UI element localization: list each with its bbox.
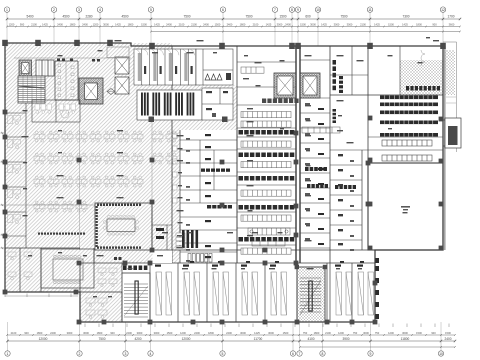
right strip shelf bar [333, 60, 337, 90]
right strip shelf bar 2 [333, 109, 337, 123]
svg-text:1425: 1425 [266, 23, 272, 27]
right wall gray band [443, 46, 445, 250]
svg-text:7: 7 [299, 352, 301, 356]
top dimension line 2 labels [9, 23, 455, 27]
svg-text:2100: 2100 [360, 23, 366, 27]
conference room acoustic dash left [96, 206, 98, 247]
urinal zigzags [205, 74, 222, 80]
interior wall: left block right edge [171, 46, 173, 263]
svg-text:10: 10 [316, 8, 320, 12]
shower stalls row [134, 49, 204, 85]
svg-text:3000: 3000 [268, 331, 274, 335]
svg-text:11700: 11700 [254, 337, 263, 341]
svg-text:1500: 1500 [167, 331, 173, 335]
svg-text:1800: 1800 [128, 23, 134, 27]
locker room [137, 90, 202, 120]
dark dotted seat band [38, 233, 85, 235]
locker shelving stacks [141, 93, 194, 116]
stairwell corner columns [295, 265, 328, 269]
left stair center rail [135, 281, 138, 314]
svg-text:1800: 1800 [240, 23, 246, 27]
strip A bottom shelves [188, 254, 212, 263]
svg-text:4500: 4500 [121, 15, 128, 19]
interior wall: right block y=95 [330, 94, 443, 96]
open office desk field [34, 131, 143, 212]
svg-text:5400: 5400 [26, 15, 33, 19]
conference room walls [95, 203, 152, 250]
svg-text:1500: 1500 [215, 23, 221, 27]
rooms column west fixtures [338, 154, 354, 251]
lower-left meeting table [53, 255, 83, 284]
svg-text:12000: 12000 [39, 337, 48, 341]
svg-text:7500: 7500 [245, 15, 252, 19]
rooms right of locker room [202, 88, 233, 120]
hatch region: lower-left protruding room [80, 292, 122, 322]
main stair S2 [18, 76, 45, 103]
svg-text:3000: 3000 [137, 331, 143, 335]
svg-text:5: 5 [222, 352, 224, 356]
svg-text:1800: 1800 [416, 23, 422, 27]
interior wall: right block y=163 [368, 162, 443, 164]
hatch region: left office block [5, 43, 172, 263]
svg-text:1200: 1200 [338, 331, 344, 335]
svg-text:1200: 1200 [93, 23, 99, 27]
lower-left rooms walls [5, 248, 94, 292]
svg-text:2400: 2400 [166, 23, 172, 27]
strip A dark band 2 [207, 205, 232, 209]
hatch region: lower-left offices [5, 263, 122, 292]
conference room acoustic dash bottom [97, 246, 141, 248]
svg-text:1425: 1425 [374, 23, 380, 27]
svg-text:2400: 2400 [226, 331, 232, 335]
interior wall: strip A mid x=214 [213, 150, 215, 190]
left offices column dividers [5, 100, 26, 248]
svg-text:1: 1 [6, 8, 8, 12]
right block terrace shelf row [406, 86, 440, 91]
svg-text:4200: 4200 [134, 337, 141, 341]
svg-text:2400: 2400 [285, 23, 291, 27]
strip A room dividers [180, 130, 237, 263]
svg-text:600: 600 [305, 15, 311, 19]
svg-text:900: 900 [24, 331, 29, 335]
washroom dark fixture [226, 73, 231, 80]
hatch region: upper toilets area [172, 85, 237, 130]
mid-south bench [248, 228, 290, 246]
washroom right of stalls [196, 49, 233, 85]
top grid line stems [7, 13, 443, 47]
interior wall: right block divider x=368 [367, 46, 369, 250]
svg-text:750: 750 [353, 331, 358, 335]
mid-south fixtures [156, 228, 164, 239]
svg-text:9: 9 [370, 352, 372, 356]
svg-text:5: 5 [150, 8, 152, 12]
left offices desks [8, 116, 21, 224]
svg-text:1200: 1200 [180, 331, 186, 335]
svg-text:3000: 3000 [103, 23, 109, 27]
svg-text:1700: 1700 [447, 15, 454, 19]
interior wall: strip A mid x=200 [199, 140, 201, 203]
terrace scallop arcs [421, 50, 425, 66]
svg-text:1200: 1200 [388, 331, 394, 335]
entrance lobby door arcs [134, 49, 194, 55]
warehouse segmented outline rows [382, 140, 432, 161]
svg-text:1800: 1800 [208, 331, 214, 335]
interior wall: central corridor east [299, 46, 301, 263]
right block top rooms walls [330, 46, 400, 95]
hatch region: mid corridor [172, 130, 180, 263]
svg-text:1500: 1500 [388, 23, 394, 27]
locker boxes stack [176, 233, 185, 250]
svg-text:2100: 2100 [31, 23, 37, 27]
svg-text:2400: 2400 [194, 331, 200, 335]
svg-text:2100: 2100 [191, 23, 197, 27]
lower-left desks [8, 252, 32, 280]
svg-text:7500: 7500 [183, 15, 190, 19]
svg-text:1425: 1425 [115, 23, 121, 27]
svg-text:2400: 2400 [82, 23, 88, 27]
right strip dividers [300, 60, 330, 248]
svg-text:1200: 1200 [9, 23, 15, 27]
svg-text:1500: 1500 [416, 331, 422, 335]
top dimension line 1 [6, 18, 461, 20]
svg-text:900: 900 [20, 23, 25, 27]
svg-text:900: 900 [110, 331, 115, 335]
north arrow diamond [107, 89, 115, 95]
top grid bubbles [4, 7, 445, 12]
interior wall: right strip east x=330 [329, 46, 331, 263]
svg-text:7500: 7500 [98, 337, 105, 341]
svg-text:7300: 7300 [402, 15, 409, 19]
svg-text:3600: 3600 [83, 331, 89, 335]
bottom grid bubbles [5, 351, 444, 356]
lab dark equipment rows [239, 130, 295, 242]
mid corridor door boxes [173, 133, 178, 203]
strip A dark band 1 [201, 169, 230, 172]
bottom stairwell stair [297, 267, 325, 322]
interior wall: central corridor west [295, 46, 297, 263]
svg-text:1500: 1500 [283, 331, 289, 335]
svg-text:6: 6 [222, 8, 224, 12]
svg-text:1425: 1425 [321, 23, 327, 27]
bottom dimension line 1 [6, 334, 456, 336]
svg-text:3900: 3900 [342, 337, 349, 341]
elevator lobby dark band [262, 99, 299, 104]
svg-text:2400: 2400 [57, 23, 63, 27]
svg-text:9: 9 [297, 8, 299, 12]
open office desk field right group [152, 131, 177, 164]
entrance vestibule [107, 47, 129, 58]
svg-text:1500: 1500 [141, 23, 147, 27]
svg-text:3000: 3000 [347, 23, 353, 27]
hatch region: top-right terrace stipple [400, 60, 443, 95]
svg-text:1: 1 [7, 352, 9, 356]
interior wall: corridor south y=250 [152, 249, 375, 251]
svg-text:1425: 1425 [254, 331, 260, 335]
svg-text:3: 3 [78, 8, 80, 12]
lower-left wall dim ticks [5, 294, 78, 298]
rooms column west of big room [330, 150, 362, 250]
svg-text:2100: 2100 [253, 23, 259, 27]
columns at locker room corners [149, 117, 228, 123]
svg-text:1800: 1800 [37, 331, 43, 335]
svg-text:3: 3 [125, 352, 127, 356]
svg-text:1500: 1500 [300, 23, 306, 27]
svg-text:12000: 12000 [182, 337, 191, 341]
svg-text:4: 4 [99, 8, 101, 12]
mid-south dark bars [182, 230, 198, 248]
svg-text:4: 4 [150, 352, 152, 356]
bottom dimension line 2 [6, 340, 456, 342]
labs strip dividers [237, 62, 296, 245]
shower stall door arcs [134, 49, 194, 55]
svg-text:3600: 3600 [402, 331, 408, 335]
svg-text:2: 2 [79, 352, 81, 356]
right strip dark row 2 [307, 184, 328, 188]
corridor door marks [160, 261, 364, 263]
svg-text:1800: 1800 [70, 23, 76, 27]
bottom dimension line 2 labels [39, 337, 452, 341]
bottom row door marks [155, 265, 363, 267]
elevator E2 [79, 78, 103, 104]
svg-text:750: 750 [375, 331, 380, 335]
svg-text:11800: 11800 [401, 337, 410, 341]
protruding room desks [80, 292, 122, 322]
hatch region: bottom stairwell [297, 267, 325, 322]
mid-south rooms walls [152, 205, 180, 250]
svg-text:1500: 1500 [445, 331, 451, 335]
svg-text:8: 8 [291, 8, 293, 12]
svg-text:1425: 1425 [402, 23, 408, 27]
svg-text:3000: 3000 [67, 331, 73, 335]
big room [368, 163, 443, 250]
svg-text:7500: 7500 [340, 15, 347, 19]
rooms right of locker room fixtures [206, 91, 228, 117]
elevator E3 [274, 73, 296, 98]
interior wall: big room bottom y=250 inner [368, 249, 443, 251]
shaft slots right of E1 [36, 60, 54, 76]
svg-text:7: 7 [274, 8, 276, 12]
svg-text:6: 6 [292, 352, 294, 356]
svg-text:11: 11 [368, 8, 372, 12]
toilet block [55, 61, 78, 100]
big room label [401, 206, 410, 210]
svg-text:12: 12 [441, 8, 445, 12]
interior wall: labs strip west x=237 [236, 46, 238, 263]
bottom wall sub ticks [85, 324, 449, 328]
bottom dimension line 1 labels [11, 331, 452, 335]
svg-text:2400: 2400 [126, 331, 132, 335]
west column dark row [335, 185, 356, 189]
svg-text:2280: 2280 [85, 15, 92, 19]
corridor junction white patch [153, 251, 173, 264]
interior wall: corridor north y=263 [80, 262, 375, 264]
office grid line x=79.5 [79, 122, 81, 250]
svg-text:1800: 1800 [314, 331, 320, 335]
room above protruding desks [98, 268, 117, 287]
wall x=80 segment [79, 263, 81, 292]
warehouse dark shelf rows [380, 96, 438, 137]
svg-text:3000: 3000 [154, 331, 160, 335]
right block mid walls [330, 137, 443, 150]
lobby south edge line [14, 57, 131, 59]
office grid line x=152 [151, 122, 153, 203]
svg-text:2400: 2400 [444, 337, 451, 341]
hatch region: right edge strip [443, 50, 455, 95]
svg-text:2: 2 [53, 8, 55, 12]
right strip bench [302, 127, 340, 133]
bottom dimension line 3 [299, 346, 456, 348]
svg-text:750: 750 [303, 331, 308, 335]
elevator E1 [19, 60, 32, 76]
top dimension line 3 right half [150, 31, 461, 33]
svg-text:1425: 1425 [154, 23, 160, 27]
far right overhang line [443, 42, 457, 152]
stairwell center rail [309, 281, 312, 311]
bottom right wall marks [376, 258, 380, 319]
elevator E4 [300, 73, 320, 98]
svg-text:4500: 4500 [62, 15, 69, 19]
top dimension line 1 labels [26, 15, 454, 19]
wall x=122 segment [121, 263, 123, 273]
svg-text:2400: 2400 [227, 23, 233, 27]
bottom grid line stems [8, 322, 442, 351]
svg-text:900: 900 [432, 23, 437, 27]
svg-text:3000: 3000 [310, 23, 316, 27]
hatch region: stair left of bottom row [122, 273, 150, 322]
bottom row shelves [156, 272, 374, 315]
svg-text:2100: 2100 [325, 331, 331, 335]
desk rooms below core [32, 100, 80, 122]
bottom row room dividers [150, 263, 352, 322]
svg-text:8: 8 [322, 352, 324, 356]
svg-text:3000: 3000 [240, 331, 246, 335]
fixture row above stair [123, 266, 147, 271]
building outer wall [5, 43, 443, 322]
svg-text:1800: 1800 [97, 331, 103, 335]
room label smudges [22, 37, 440, 297]
svg-text:3000: 3000 [277, 23, 283, 27]
desk room round table [61, 110, 69, 118]
svg-text:2400: 2400 [50, 331, 56, 335]
right strip dark row 1 [305, 167, 327, 171]
structural columns [2, 40, 446, 325]
stair left of bottom row treads [122, 273, 150, 322]
interior wall: left bottom wall y=292 [5, 291, 80, 293]
lab benches [241, 67, 291, 254]
svg-text:1500: 1500 [279, 15, 286, 19]
svg-text:3000: 3000 [334, 23, 340, 27]
top dimension line 2 [6, 26, 461, 28]
svg-text:4100: 4100 [307, 337, 314, 341]
corridor fixture marks near stair [114, 257, 122, 260]
svg-text:3600: 3600 [449, 23, 455, 27]
svg-text:2400: 2400 [203, 23, 209, 27]
right strip fixtures [305, 103, 324, 245]
svg-text:10: 10 [439, 352, 443, 356]
service shafts pair [115, 57, 129, 94]
svg-text:900: 900 [431, 331, 436, 335]
right outbuilding [443, 118, 461, 148]
conference room acoustic dash top [97, 204, 141, 206]
strip A fixtures [186, 134, 211, 262]
conference table [103, 215, 138, 235]
office partition wall y=205 [5, 204, 95, 206]
svg-text:2100: 2100 [179, 23, 185, 27]
svg-text:1425: 1425 [42, 23, 48, 27]
toilet dark fixtures [57, 59, 100, 62]
svg-text:3000: 3000 [363, 331, 369, 335]
right block fixture bar 3 [339, 76, 343, 93]
svg-text:2100: 2100 [11, 331, 17, 335]
left edge tick marks [1, 132, 5, 249]
